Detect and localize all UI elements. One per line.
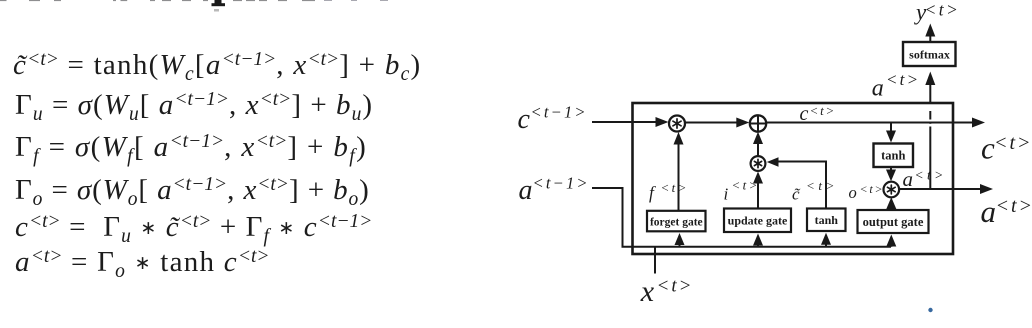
svg-text:<t>: <t> — [996, 195, 1032, 217]
svg-text:<t>: <t> — [661, 180, 689, 195]
svg-text:f: f — [649, 183, 656, 203]
svg-text:c: c — [981, 131, 995, 166]
svg-text:<t−1>: <t−1> — [531, 103, 588, 122]
svg-text:tanh: tanh — [881, 149, 905, 163]
svg-text:c: c — [800, 103, 809, 125]
svg-text:<t>: <t> — [860, 182, 885, 196]
svg-text:<t>: <t> — [732, 178, 760, 193]
svg-text:o: o — [849, 183, 857, 202]
svg-text:<t−1>: <t−1> — [533, 174, 590, 193]
svg-text:<t>: <t> — [994, 132, 1032, 154]
svg-text:output gate: output gate — [863, 215, 924, 229]
svg-text:softmax: softmax — [909, 48, 950, 62]
svg-text:a: a — [981, 194, 997, 229]
svg-text:x: x — [640, 275, 655, 308]
svg-text:a: a — [519, 175, 533, 206]
svg-text:i: i — [724, 185, 729, 204]
svg-text:update gate: update gate — [728, 214, 788, 228]
svg-text:<t>: <t> — [925, 0, 961, 20]
svg-text:c: c — [518, 104, 531, 135]
svg-text:tanh: tanh — [815, 213, 839, 227]
svg-text:c̃: c̃ — [792, 185, 801, 204]
svg-text:<t>: <t> — [886, 70, 920, 89]
svg-text:a: a — [903, 167, 914, 191]
svg-text:a: a — [872, 76, 884, 102]
svg-text:forget gate: forget gate — [650, 217, 703, 229]
svg-text:<t>: <t> — [806, 178, 838, 193]
svg-text:<t>: <t> — [657, 276, 694, 297]
svg-text:<t>: <t> — [810, 103, 837, 118]
svg-text:<t>: <t> — [915, 168, 947, 183]
